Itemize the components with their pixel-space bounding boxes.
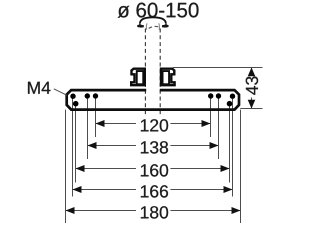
hole leader line 120 right [210, 96, 212, 137]
right clip slot [163, 71, 170, 84]
dimension 120 arrows [96, 120, 105, 127]
pipe clamp saddle arc [140, 17, 166, 23]
left clip slot [137, 71, 144, 84]
hole right mid [216, 93, 221, 98]
dimension 166 arrows [73, 186, 82, 193]
clamp hidden inner edge (dashed) [149, 26, 159, 28]
dimension 138 text [141, 141, 168, 153]
dimension 166 line [73, 189, 137, 191]
dimension 120 text [141, 119, 168, 131]
clamp inner edge right [158, 23, 161, 30]
centerline dashed left [144, 29, 146, 117]
hole leader line 166 right [232, 96, 234, 197]
hole leader line 166 left [72, 96, 74, 197]
hole right outer [230, 94, 235, 99]
clamp left foot [137, 23, 144, 27]
43 text (rotated) [246, 77, 258, 95]
43 bottom extension line [240, 108, 262, 110]
dimension 160 text [141, 164, 168, 176]
bracket bar outline with top slot gap [67, 90, 239, 110]
bracket bar body fill [67, 90, 239, 110]
centerline dashed right [159, 29, 161, 117]
hole right inner [208, 93, 213, 98]
dimension 138 arrows [88, 142, 97, 149]
right rail clip [161, 69, 175, 86]
dimension 180 text [141, 206, 168, 218]
hole leader line 120 left [95, 96, 97, 137]
extension line 180 left [65, 110, 67, 223]
hole M4 left outer [70, 94, 75, 99]
hole leader line 160 right [229, 103, 231, 182]
hole leader line 160 left [75, 103, 77, 182]
hole right lower [227, 101, 233, 107]
dimension 166 text [141, 185, 168, 197]
dimension 138 line [88, 145, 137, 147]
label: pipe diameter range text [118, 3, 199, 18]
43 arrows [248, 68, 256, 77]
hole left lower [73, 101, 79, 107]
dimension 180 arrows [66, 207, 75, 214]
extension line 180 right [240, 110, 242, 223]
M4 label [28, 82, 50, 94]
dimension 160 line [76, 168, 137, 170]
hole leader line 138 right [218, 96, 220, 159]
43 top extension line [173, 67, 263, 69]
clamp inner edge left [145, 23, 148, 30]
hole left inner [93, 93, 98, 98]
M4 leader line [54, 89, 67, 95]
dimension 120 line [96, 123, 137, 125]
hole left mid [85, 93, 90, 98]
hole leader line 138 left [87, 96, 89, 159]
43 dimension line [251, 68, 253, 74]
dimension 180 line [66, 210, 137, 212]
clamp right foot [162, 23, 169, 27]
dimension 160 arrows [76, 165, 85, 172]
left rail clip [131, 69, 145, 86]
